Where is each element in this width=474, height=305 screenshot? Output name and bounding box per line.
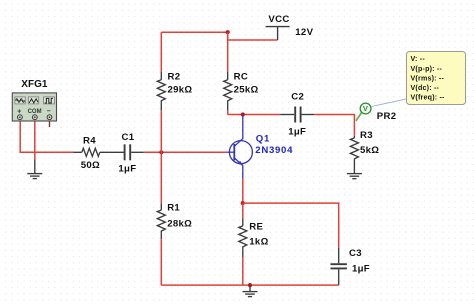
svg-text:25kΩ: 25kΩ [234,85,259,96]
svg-text:50Ω: 50Ω [81,160,100,171]
resistor R1 [157,152,192,285]
resistor R4 [73,136,124,172]
wire: XFG1 COM terminal down [34,120,36,160]
svg-text:V(p-p): --: V(p-p): -- [411,65,443,73]
svg-text:1kΩ: 1kΩ [249,237,268,248]
resistor R3 [350,130,379,173]
XFG1 instrument box [12,79,56,121]
svg-text:VCC: VCC [268,14,289,25]
svg-text:RE: RE [249,222,263,233]
wire: emitter node right and down to C3 [243,203,339,248]
svg-text:R1: R1 [167,203,180,214]
svg-text:C1: C1 [122,132,135,143]
wire: emitter down to node [242,179,244,204]
node: main junction [159,150,163,154]
svg-text:1μF: 1μF [352,264,370,275]
svg-text:PR2: PR2 [377,111,397,122]
probe PR2 tail [356,112,362,121]
wire: collector rail RC to C2 [228,114,281,116]
ground under R3 [347,174,362,179]
svg-text:COM: COM [28,109,42,115]
wire: XFG1 plus terminal down and right to R4 [20,120,73,153]
svg-text:R3: R3 [360,130,373,141]
svg-text:5kΩ: 5kΩ [360,145,379,156]
svg-text:–: – [47,108,51,115]
svg-text:V(dc): --: V(dc): -- [411,84,440,92]
probe annotation box [407,52,466,105]
resistor RC [224,32,259,114]
svg-text:C2: C2 [291,92,304,103]
svg-text:1μF: 1μF [288,127,306,138]
svg-text:V: --: V: -- [411,55,426,63]
node: bottom ground junction [248,283,252,287]
XFG1 minus pin stub [49,120,51,127]
wire: bottom rail [161,284,338,286]
transistor Q1 [227,115,252,179]
svg-text:R2: R2 [168,71,181,82]
svg-text:V: V [363,104,368,113]
capacitor C3 [331,248,370,285]
probe PR2 leader line [372,99,407,107]
svg-text:V(rms): --: V(rms): -- [411,74,445,82]
node: emitter junction [241,201,245,205]
ground under XFG1 COM [27,160,42,179]
svg-text:C3: C3 [349,248,362,259]
capacitor C1 [118,132,143,175]
svg-text:XFG1: XFG1 [21,79,48,90]
svg-text:R4: R4 [83,136,96,147]
svg-text:28kΩ: 28kΩ [167,219,192,230]
svg-text:12V: 12V [295,27,313,38]
node: top junction [226,30,230,34]
capacitor C2 [280,92,314,138]
svg-text:Q1: Q1 [256,134,270,145]
probe PR2 [360,103,371,114]
VCC symbol [266,14,314,40]
svg-text:V(freq): --: V(freq): -- [411,94,446,102]
wire: C2 to R3 corner [314,115,354,136]
wire: C1 to main junction to base [144,151,228,153]
node: collector junction [241,112,245,116]
svg-text:RC: RC [234,71,248,82]
svg-text:1μF: 1μF [118,164,136,175]
resistor RE [239,203,269,285]
wire: top rail R2 to RC [161,31,227,33]
svg-text:+: + [17,108,21,115]
ground bottom center [243,285,258,297]
resistor R2 [157,32,192,152]
wire: VCC jog [228,32,278,40]
svg-text:2N3904: 2N3904 [255,145,293,156]
svg-text:29kΩ: 29kΩ [168,85,193,96]
